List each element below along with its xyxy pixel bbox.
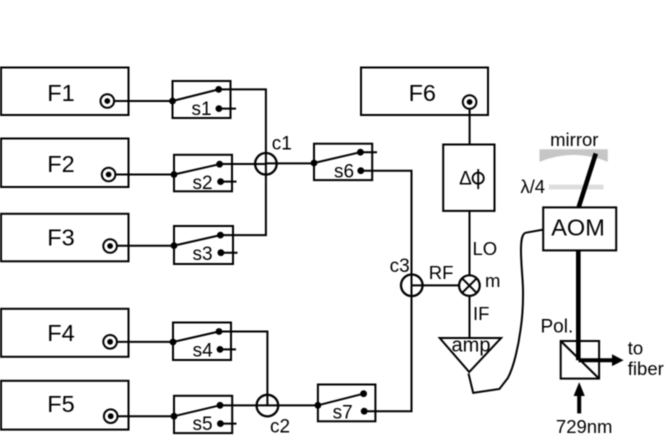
- wire s2 to c1: [220, 163, 266, 165]
- box F3: [1, 214, 129, 261]
- wire s3 to c1: [220, 164, 266, 235]
- switch s2: [171, 155, 237, 194]
- connector F2: [102, 168, 116, 182]
- svg-text:fiber: fiber: [628, 358, 664, 379]
- arrow to fiber: [579, 354, 624, 366]
- svg-text:c2: c2: [270, 417, 290, 438]
- box F6: [361, 68, 488, 116]
- combiner c2: [257, 395, 279, 417]
- mixer m: [459, 275, 480, 296]
- svg-text:amp: amp: [452, 334, 491, 356]
- svg-text:AOM: AOM: [551, 215, 605, 241]
- connector F5: [104, 409, 118, 423]
- label delta-phi: [459, 169, 484, 190]
- wire s4 to c2: [219, 332, 267, 406]
- svg-text:mirror: mirror: [550, 129, 598, 150]
- wire s5 to c2 to s7: [220, 404, 318, 406]
- wire s6 to c3: [361, 171, 412, 286]
- wire c3 to mixer RF: [412, 284, 459, 286]
- box F4: [1, 309, 129, 357]
- phase shifter box: [443, 145, 494, 211]
- wire F6 to phase shifter: [469, 109, 471, 145]
- wire F3 to s3: [117, 245, 174, 247]
- box F1: [1, 68, 129, 116]
- svg-text:F1: F1: [47, 80, 74, 106]
- wire s1 to c1: [219, 89, 266, 163]
- svg-text:F5: F5: [47, 391, 74, 417]
- box F5: [1, 381, 129, 430]
- connector F4: [103, 335, 117, 349]
- svg-text:Δ: Δ: [459, 169, 472, 190]
- switch s4: [170, 323, 236, 362]
- svg-text:s2: s2: [192, 173, 212, 194]
- svg-text:m: m: [485, 270, 500, 291]
- svg-text:c1: c1: [272, 134, 292, 155]
- arrow 729nm beam: [574, 382, 585, 413]
- svg-text:LO: LO: [473, 238, 498, 259]
- svg-text:Pol.: Pol.: [541, 316, 574, 337]
- svg-text:F6: F6: [409, 80, 436, 106]
- connector F1: [101, 94, 115, 108]
- svg-text:λ/4: λ/4: [520, 176, 545, 197]
- mirror: [540, 149, 608, 162]
- connector F3: [103, 239, 117, 253]
- svg-text:to: to: [628, 338, 643, 359]
- switch s5: [171, 396, 237, 435]
- svg-text:c3: c3: [390, 256, 410, 277]
- lambda/4 plate: [549, 185, 604, 190]
- wire s7 to c3: [364, 285, 411, 411]
- svg-text:IF: IF: [473, 303, 489, 324]
- svg-text:RF: RF: [429, 262, 454, 283]
- svg-text:s1: s1: [191, 99, 211, 120]
- wire F5 to s5: [118, 415, 175, 417]
- wire LO phase shifter to mixer: [469, 211, 471, 275]
- wire amp to AOM: [469, 230, 544, 393]
- svg-text:s6: s6: [334, 162, 354, 183]
- svg-text:729nm: 729nm: [556, 416, 613, 437]
- switch s3: [171, 226, 238, 265]
- svg-text:F4: F4: [47, 320, 74, 346]
- connector F6: [463, 95, 477, 109]
- polarizer cube: [561, 341, 599, 379]
- svg-text:s5: s5: [193, 414, 213, 435]
- svg-text:s7: s7: [333, 403, 353, 424]
- beam AOM to mirror: [579, 154, 596, 208]
- wire F2 to s2: [115, 174, 174, 176]
- svg-text:F2: F2: [47, 151, 74, 177]
- wire F4 to s4: [117, 341, 173, 343]
- svg-text:s4: s4: [193, 341, 214, 362]
- combiner c1: [255, 153, 277, 175]
- svg-text:F3: F3: [47, 225, 74, 251]
- wire IF mixer to amp: [469, 296, 471, 338]
- wire F1 to s1: [114, 100, 172, 102]
- beam AOM to polarizer: [576, 250, 581, 360]
- svg-text:s3: s3: [192, 244, 212, 265]
- box F2: [1, 139, 129, 188]
- AOM box: [543, 207, 616, 250]
- switch s1: [169, 81, 236, 120]
- switch s7: [315, 385, 376, 424]
- combiner c3: [401, 275, 423, 297]
- wire c1 to s6: [266, 162, 314, 164]
- amplifier amp: [440, 338, 501, 372]
- switch s6: [311, 144, 377, 183]
